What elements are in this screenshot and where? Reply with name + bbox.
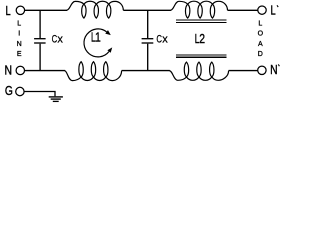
- L1 arrow head bottom: [107, 47, 112, 52]
- capacitor C1 plate 1: [34, 38, 46, 40]
- L2 top core line 2: [176, 21, 227, 23]
- ground bar 2: [51, 98, 61, 100]
- L2 bottom core line 2: [176, 56, 227, 58]
- svg-text:x: x: [162, 34, 168, 46]
- wire L1 bottom coil to L2 bottom coil: [122, 70, 170, 72]
- wire L2 top coil to L' terminal: [228, 9, 258, 11]
- svg-text:x: x: [57, 34, 63, 46]
- svg-text:L: L: [271, 3, 276, 18]
- svg-text:N: N: [17, 41, 22, 48]
- svg-text:D: D: [258, 51, 263, 58]
- capacitor C2 plate 1: [142, 38, 154, 40]
- terminal N': [258, 66, 266, 74]
- svg-text:A: A: [258, 41, 263, 48]
- wire L2 bottom coil to N' terminal: [229, 70, 258, 72]
- L1 arrow head top: [105, 30, 111, 35]
- ground bar 1: [49, 96, 63, 98]
- inductor L2 top winding: [170, 1, 187, 10]
- inductor L2 bottom winding: [169, 71, 186, 81]
- svg-text:N: N: [270, 62, 278, 77]
- terminal L': [258, 6, 266, 14]
- wire L terminal to L1 top coil: [25, 9, 67, 11]
- svg-text:1: 1: [95, 30, 101, 45]
- svg-text:G: G: [5, 83, 13, 98]
- ground bar 3: [53, 100, 59, 102]
- prime mark of N': [278, 64, 279, 66]
- terminal N: [16, 66, 24, 74]
- svg-text:N: N: [5, 62, 13, 77]
- capacitor C2 bottom lead: [147, 44, 149, 70]
- wire N terminal to L1 bottom coil: [25, 70, 66, 72]
- capacitor C1 plate 2: [34, 42, 46, 44]
- svg-text:C: C: [52, 34, 58, 46]
- terminal G: [16, 87, 24, 95]
- L2 bottom core line 1: [176, 54, 227, 56]
- capacitor C2 top lead: [147, 11, 149, 38]
- svg-text:C: C: [156, 34, 162, 46]
- svg-text:2: 2: [199, 31, 205, 46]
- prime mark of L': [277, 5, 278, 7]
- capacitor C1 bottom lead: [39, 44, 41, 70]
- svg-text:L: L: [5, 3, 10, 18]
- svg-text:L: L: [258, 20, 262, 27]
- svg-text:E: E: [17, 51, 22, 58]
- inductor L1 top winding: [66, 1, 84, 10]
- inductor L1 bottom winding: [65, 71, 82, 81]
- L2 top core line 1: [176, 19, 227, 21]
- svg-text:O: O: [258, 31, 264, 38]
- svg-text:I: I: [18, 31, 20, 38]
- svg-text:L: L: [17, 20, 21, 27]
- wire L1 top coil to L2 top coil: [123, 9, 171, 11]
- wire G terminal to ground: [24, 92, 55, 97]
- capacitor C1 top lead: [39, 11, 41, 38]
- terminal L: [16, 6, 24, 14]
- L1 rotation arrow arc: [84, 29, 109, 57]
- capacitor C2 plate 2: [142, 42, 154, 44]
